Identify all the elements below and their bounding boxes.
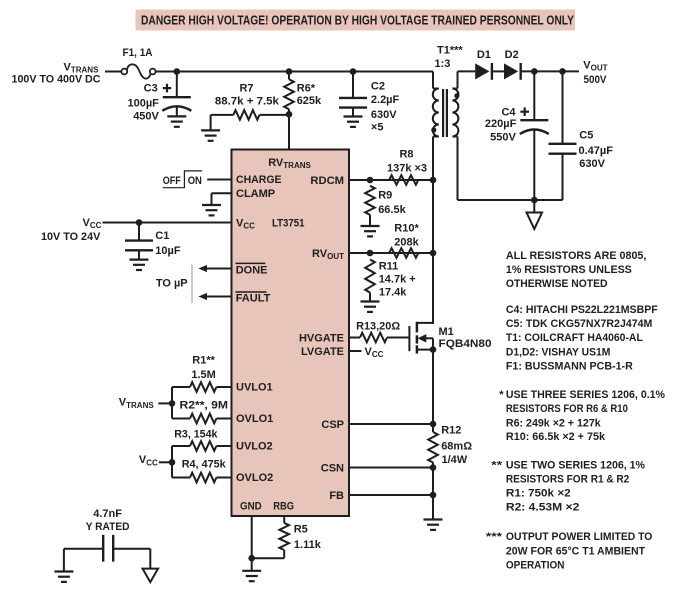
svg-text:FAULT: FAULT [236,292,271,304]
svg-text:USE THREE SERIES 1206, 0.1%: USE THREE SERIES 1206, 0.1% [506,389,665,401]
svg-text:1.5M: 1.5M [191,369,215,381]
svg-text:ON: ON [188,175,202,187]
svg-text:*: * [499,389,504,401]
svg-text:C5: TDK CKG57NX7R2J474M: C5: TDK CKG57NX7R2J474M [506,318,652,330]
svg-text:C5: C5 [579,130,593,142]
svg-text:C4: HITACHI PS22L221MSBPF: C4: HITACHI PS22L221MSBPF [506,304,658,316]
svg-text:RESISTORS FOR R1 & R2: RESISTORS FOR R1 & R2 [506,474,629,486]
svg-text:R10*: R10* [394,222,419,234]
svg-text:**: ** [491,460,503,472]
svg-text:D1,D2: VISHAY US1M: D1,D2: VISHAY US1M [506,346,610,358]
svg-text:OFF: OFF [163,175,181,187]
svg-text:1.11k: 1.11k [294,539,322,551]
svg-text:DONE: DONE [236,264,268,276]
svg-text:TO µP: TO µP [156,278,188,290]
svg-text:OVLO2: OVLO2 [236,472,273,484]
svg-text:D2: D2 [505,49,519,61]
svg-text:208k: 208k [394,237,419,249]
svg-text:R7: R7 [239,83,253,95]
svg-text:DANGER HIGH VOLTAGE! OPERATION: DANGER HIGH VOLTAGE! OPERATION BY HIGH V… [141,14,575,28]
svg-text:14.7k +: 14.7k + [379,274,416,286]
svg-text:RESISTORS FOR R6 & R10: RESISTORS FOR R6 & R10 [506,403,628,415]
svg-text:1:3: 1:3 [435,58,451,70]
svg-text:D1: D1 [477,49,491,61]
svg-text:R2: 4.53M ×2: R2: 4.53M ×2 [506,501,579,513]
svg-text:2.2µF: 2.2µF [371,94,400,106]
svg-text:500V: 500V [584,74,608,86]
svg-text:1% RESISTORS UNLESS: 1% RESISTORS UNLESS [506,264,632,276]
svg-text:1/4W: 1/4W [442,454,468,466]
svg-text:CSN: CSN [321,463,344,475]
svg-text:T1***: T1*** [437,44,463,56]
svg-text:CSP: CSP [321,419,344,431]
svg-text:R8: R8 [399,149,413,161]
svg-text:UVLO2: UVLO2 [236,441,273,453]
svg-text:88.7k + 7.5k: 88.7k + 7.5k [215,95,280,107]
svg-text:C2: C2 [371,80,385,92]
svg-text:R9: R9 [378,190,392,202]
svg-text:×5: ×5 [371,122,384,134]
svg-text:R4, 475k: R4, 475k [182,459,227,471]
svg-text:Y RATED: Y RATED [86,521,130,533]
svg-text:630V: 630V [579,158,605,170]
svg-text:T1: COILCRAFT HA4060-AL: T1: COILCRAFT HA4060-AL [506,332,643,344]
svg-text:C3: C3 [144,82,158,94]
svg-text:LT3751: LT3751 [272,217,305,229]
svg-text:100µF: 100µF [127,97,159,109]
svg-text:17.4k: 17.4k [379,287,407,299]
svg-text:F1: BUSSMANN PCB-1-R: F1: BUSSMANN PCB-1-R [506,360,633,372]
svg-text:RDCM: RDCM [310,175,344,187]
svg-text:M1: M1 [439,326,454,338]
svg-text:C1: C1 [155,230,169,242]
svg-text:ALL RESISTORS ARE 0805,: ALL RESISTORS ARE 0805, [506,250,647,262]
svg-text:RBG: RBG [273,501,294,513]
svg-text:OVLO1: OVLO1 [236,413,273,425]
svg-text:625k: 625k [297,95,322,107]
svg-text:R1: 750k ×2: R1: 750k ×2 [506,488,571,500]
svg-text:R10: 66.5k ×2 + 75k: R10: 66.5k ×2 + 75k [506,431,606,443]
svg-text:CHARGE: CHARGE [236,174,282,186]
svg-text:R13,20Ω: R13,20Ω [356,320,400,332]
svg-text:R11: R11 [379,261,399,273]
svg-text:10µF: 10µF [155,245,181,257]
svg-text:C4: C4 [501,106,516,118]
svg-text:68mΩ: 68mΩ [441,440,472,452]
svg-text:20W FOR 65°C T1 AMBIENT: 20W FOR 65°C T1 AMBIENT [506,545,645,557]
svg-text:4.7nF: 4.7nF [93,508,122,520]
svg-text:R6: 249k ×2 + 127k: R6: 249k ×2 + 127k [506,417,602,429]
svg-text:R12: R12 [441,425,461,437]
svg-text:LVGATE: LVGATE [301,346,344,358]
svg-text:550V: 550V [490,132,516,144]
svg-text:HVGATE: HVGATE [299,333,344,345]
svg-text:100V TO 400V DC: 100V TO 400V DC [12,74,101,86]
svg-text:450V: 450V [133,111,159,123]
svg-text:OTHERWISE NOTED: OTHERWISE NOTED [506,278,608,290]
svg-text:OUTPUT POWER LIMITED TO: OUTPUT POWER LIMITED TO [506,531,653,543]
svg-text:137k ×3: 137k ×3 [387,163,427,175]
svg-text:R3, 154k: R3, 154k [174,429,218,441]
svg-text:***: *** [486,531,503,543]
svg-text:220µF: 220µF [485,118,517,130]
svg-text:10V TO 24V: 10V TO 24V [41,231,101,243]
svg-text:0.47µF: 0.47µF [579,145,614,157]
svg-text:FQB4N80: FQB4N80 [439,338,492,350]
svg-text:CLAMP: CLAMP [236,188,275,200]
svg-text:R5: R5 [294,524,308,536]
svg-text:630V: 630V [371,109,397,121]
svg-text:R1**: R1** [192,355,215,367]
svg-text:F1, 1A: F1, 1A [123,47,153,59]
svg-text:R2**, 9M: R2**, 9M [180,399,229,411]
svg-text:USE TWO SERIES 1206, 1%: USE TWO SERIES 1206, 1% [506,460,645,472]
svg-text:GND: GND [240,501,262,513]
svg-text:UVLO1: UVLO1 [236,382,273,394]
svg-text:OPERATION: OPERATION [506,559,565,571]
svg-text:R6*: R6* [297,82,316,94]
svg-text:FB: FB [329,490,344,502]
svg-text:66.5k: 66.5k [378,204,406,216]
